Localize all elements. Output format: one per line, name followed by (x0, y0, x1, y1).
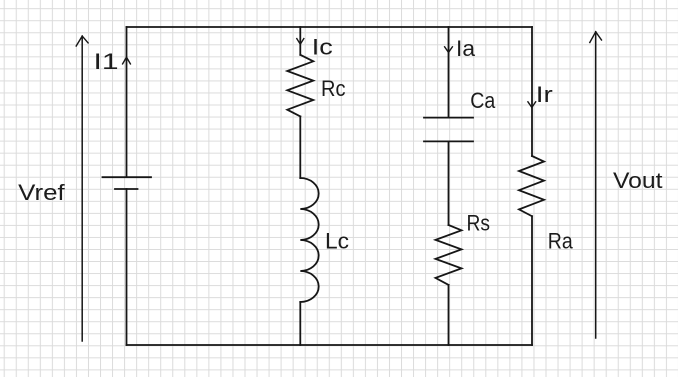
svg-text:Lc: Lc (325, 229, 349, 254)
arrow Ia direction chevron (445, 47, 453, 53)
wire bottom rail (127, 344, 533, 346)
svg-text:Rs: Rs (467, 211, 491, 236)
wire left branch lower (126, 189, 128, 345)
wire left branch upper (126, 27, 128, 177)
arrow Vref voltage indicator (76, 36, 88, 341)
wire capacitor branch mid (448, 141, 450, 225)
wire top rail (127, 26, 533, 28)
inductor Lc (300, 178, 318, 302)
capacitor Ca (424, 118, 473, 142)
wire capacitor branch bottom (448, 285, 450, 345)
arrow I1 direction chevron (123, 57, 131, 64)
svg-text:Ra: Ra (548, 229, 574, 254)
arrow Ic direction chevron (297, 39, 304, 45)
resistor Rc (287, 55, 313, 117)
svg-text:Vout: Vout (613, 168, 663, 193)
svg-text:Ir: Ir (536, 82, 553, 107)
wire capacitor branch top (448, 27, 450, 118)
wire right branch bottom (531, 216, 533, 345)
svg-text:Ia: Ia (456, 36, 476, 61)
svg-text:I1: I1 (94, 49, 119, 74)
resistor Rs (436, 225, 462, 285)
wire middle branch bottom (299, 302, 301, 345)
svg-text:Ic: Ic (312, 35, 333, 60)
resistor Ra (519, 156, 544, 216)
wire middle branch top (299, 27, 301, 55)
battery V1 (Vref source) (103, 177, 152, 189)
svg-text:Rc: Rc (321, 76, 346, 101)
arrow Vout voltage indicator (590, 32, 602, 338)
svg-text:Ca: Ca (470, 88, 496, 113)
svg-text:Vref: Vref (18, 180, 66, 205)
arrow Ir direction chevron (528, 102, 536, 108)
wire middle branch mid (299, 116, 301, 178)
wire right branch top (531, 27, 533, 156)
